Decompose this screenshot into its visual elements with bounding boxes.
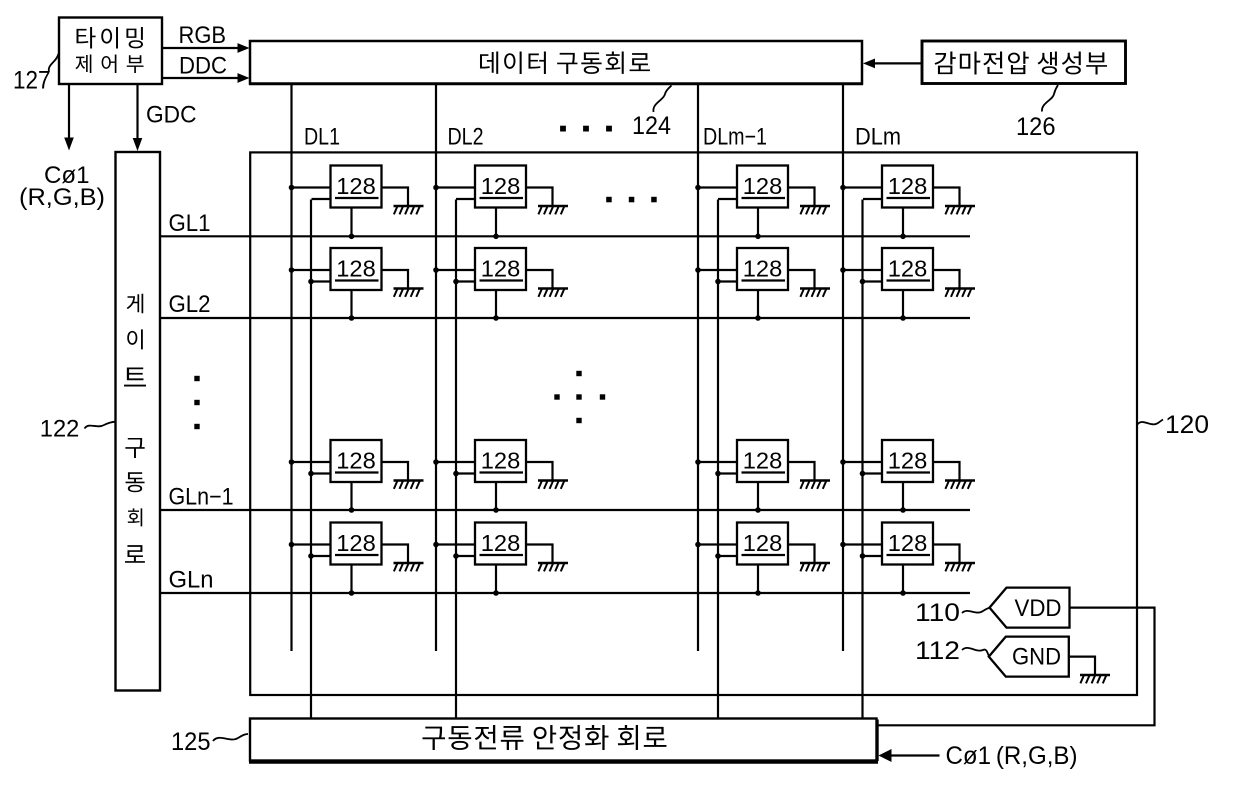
VDD supply flag 110	[990, 588, 1070, 628]
data line DL2 (vertical)	[435, 84, 437, 651]
gate line GLn (horizontal)	[160, 592, 970, 594]
block 127: timing controller box (타이밍 제어부)	[59, 18, 162, 85]
gate line GL2 (horizontal)	[160, 317, 970, 319]
svg-text:RGB: RGB	[179, 22, 227, 49]
svg-text:DLm: DLm	[855, 124, 901, 151]
svg-text:GL1: GL1	[169, 210, 211, 237]
svg-text:120: 120	[1165, 411, 1209, 439]
label 112 with tilde leader	[915, 637, 989, 665]
pixel circuit 128 at (GL1, DL1) with ground	[289, 166, 424, 236]
center ellipsis dots (diamond pattern)	[554, 371, 605, 423]
ellipsis dots between DL2 and DLm-1 (top)	[560, 126, 612, 132]
wire GDC from timing controller to gate driver	[133, 84, 143, 151]
svg-text:GND: GND	[1012, 644, 1061, 671]
svg-text:GLn−1: GLn−1	[169, 484, 234, 511]
svg-text:(R,G,B): (R,G,B)	[19, 184, 105, 211]
wire CO1 output arrow from timing controller (down-left)	[64, 84, 74, 151]
svg-text:125: 125	[171, 728, 211, 756]
svg-text:DL2: DL2	[448, 124, 484, 151]
block 122: gate driver circuit box (게이트 구동회로, vertical text)	[116, 152, 161, 691]
pixel circuit 128 at (GL2, DLm-1) with ground	[695, 248, 830, 318]
svg-text:GDC: GDC	[146, 102, 197, 129]
wire RGB from timing controller to data driver	[162, 43, 250, 53]
label 120 with tilde leader	[1137, 411, 1209, 439]
svg-text:127: 127	[13, 67, 51, 95]
pixel circuit 128 at (GL2, DL1) with ground	[289, 248, 424, 318]
ground symbol at GND flag	[1080, 675, 1110, 683]
svg-text:112: 112	[915, 637, 960, 665]
wire from VDD flag to stabilization circuit (right side loop)	[877, 608, 1155, 726]
svg-text:DDC: DDC	[179, 53, 227, 80]
label 125 with tilde leader	[171, 728, 248, 756]
pixel circuit 128 at (GL2, DL2) with ground	[433, 248, 568, 318]
junction dots: cell supply taps on power columns	[308, 279, 865, 559]
svg-text:DLm−1: DLm−1	[703, 124, 767, 151]
block 126: gamma voltage generator box (감마전압 생성부)	[922, 41, 1126, 84]
pixel circuit 128 at (GLn, DLm-1) with ground	[695, 523, 830, 593]
pixel circuit 128 at (GLn-1, DLm) with ground	[840, 440, 975, 510]
svg-text:VDD: VDD	[1015, 595, 1062, 622]
svg-text:DL1: DL1	[304, 124, 340, 151]
label 127 with leader	[13, 54, 59, 95]
svg-text:122: 122	[40, 416, 80, 443]
svg-text:Cø1 (R,G,B): Cø1 (R,G,B)	[946, 742, 1078, 770]
data line DL1 (vertical)	[290, 84, 292, 651]
power column line for DLm-1 cells	[717, 200, 719, 720]
svg-text:GLn: GLn	[169, 567, 214, 594]
pixel circuit 128 at (GL2, DLm) with ground	[840, 248, 975, 318]
label 110 with tilde leader	[915, 599, 989, 627]
pixel circuit 128 at (GL1, DL2) with ground	[433, 166, 568, 236]
pixel circuit 128 at (GLn, DL2) with ground	[433, 523, 568, 593]
data line DLm (vertical)	[842, 84, 844, 651]
data line DLm-1 (vertical)	[697, 84, 699, 651]
block 125: driving current stabilization circuit box (구동전류 안정화 회로)	[249, 719, 878, 763]
gate line GLn-1 (horizontal)	[160, 509, 970, 511]
label 122 with tilde leader	[40, 416, 116, 443]
gate line GL1 (horizontal)	[160, 235, 970, 237]
pixel circuit 128 at (GLn-1, DL1) with ground	[289, 440, 424, 510]
svg-text:GL2: GL2	[169, 291, 211, 318]
wire from GND flag to ground	[1070, 657, 1096, 674]
pixel circuit 128 at (GL1, DLm-1) with ground	[695, 166, 830, 236]
block 124: data driver circuit box (데이터 구동회로)	[249, 41, 863, 84]
power column line for DL1 cells	[310, 200, 312, 720]
pixel circuit 128 at (GLn-1, DL2) with ground	[433, 440, 568, 510]
label 124 with leader	[632, 86, 672, 141]
wire DDC from timing controller to data driver	[162, 73, 250, 83]
label 126 with leader	[1016, 85, 1058, 141]
ellipsis dots in first pixel row	[606, 197, 657, 203]
vertical ellipsis dots next to gate driver	[194, 376, 199, 429]
svg-text:124: 124	[632, 112, 671, 140]
svg-text:126: 126	[1016, 113, 1056, 141]
wire from gamma voltage generator to data driver	[863, 59, 922, 69]
wire CØ1 (R,G,B) into stabilization circuit	[879, 749, 940, 762]
GND supply flag 112	[989, 637, 1069, 677]
power column line for DL2 cells	[455, 200, 457, 720]
pixel circuit 128 at (GLn-1, DLm-1) with ground	[695, 440, 830, 510]
power column line for DLm cells	[861, 200, 863, 720]
block 120: display panel outline box	[250, 152, 1137, 695]
pixel circuit 128 at (GL1, DLm) with ground	[840, 166, 975, 236]
pixel circuit 128 at (GLn, DL1) with ground	[289, 523, 424, 593]
junction dots: cell outputs onto gate lines	[349, 234, 906, 596]
svg-text:110: 110	[915, 599, 960, 627]
pixel circuit 128 at (GLn, DLm) with ground	[840, 523, 975, 593]
